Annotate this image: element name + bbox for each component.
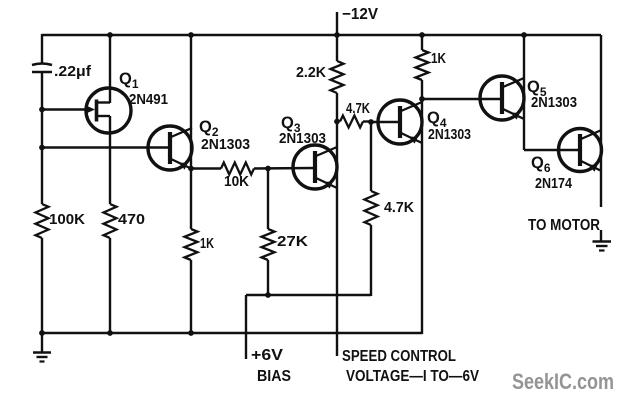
resistor 27K	[262, 229, 275, 260]
svg-text:470: 470	[118, 211, 145, 228]
resistor 100K	[36, 204, 49, 238]
svg-text:2N491: 2N491	[129, 91, 168, 108]
wire: Q5 base wire	[422, 98, 501, 100]
transistor Q2 2N1303	[148, 126, 192, 170]
transistor Q5 2N1303	[480, 76, 524, 120]
wire: left rail lower (100K to ground rail)	[41, 238, 43, 334]
wire: Q4 tangent column down to ground rail	[421, 99, 423, 334]
wire: -12V supply stub	[336, 12, 338, 35]
svg-text:2N1303: 2N1303	[428, 126, 471, 143]
wire: 1K to ground rail	[190, 260, 192, 334]
node: 4.7K / Q4 base / lower 4.7K junction	[368, 119, 374, 125]
wire: Q1 emitter to left rail	[42, 108, 88, 110]
resistor 1K (Q2 emitter-ground leg)	[185, 229, 198, 260]
svg-text:2N1303: 2N1303	[531, 94, 577, 111]
wire: left rail middle (cap to 100K)	[41, 72, 43, 204]
node: 1K / ground rail junction	[188, 330, 194, 336]
node: 10K / 27K / Q3 base junction	[265, 166, 271, 172]
wire: Q3 tangent column down to speed control terminal	[336, 93, 338, 356]
svg-text:−12V: −12V	[342, 6, 379, 23]
svg-text:VOLTAGE—I TO—6V: VOLTAGE—I TO—6V	[346, 368, 479, 385]
resistor 4.7K (horizontal, Q4 base)	[340, 116, 363, 128]
wire: top -12V rail	[42, 34, 601, 36]
wire: 27K top lead	[267, 169, 269, 230]
wire: 10K to Q3 base	[254, 167, 314, 170]
wire: Q1 top lead from rail into circle	[97, 35, 110, 103]
transistor Q4 2N1303	[378, 100, 422, 144]
node: 470 / ground rail junction	[107, 330, 113, 336]
ground (left)	[33, 333, 51, 362]
wire: bottom ground rail	[42, 332, 422, 334]
resistor 2.2K	[331, 61, 344, 93]
node: left rail / Q2 base junction	[39, 145, 45, 151]
svg-text:2N1303: 2N1303	[279, 130, 326, 147]
capacitor C1 .22uf	[32, 64, 52, 73]
wire: top rail to 1K (Q4 collector load)	[421, 35, 423, 50]
wire: 27K to bias wire	[267, 260, 269, 295]
transistor Q3 2N1303	[293, 145, 337, 189]
svg-text:2N174: 2N174	[535, 175, 573, 192]
wire: +6V bias wire	[246, 295, 371, 359]
svg-text:1K: 1K	[200, 235, 214, 252]
node: Q5 collector column / top rail junction	[521, 32, 527, 38]
resistor 4.7K (vertical)	[365, 191, 378, 225]
node: Q1 upper base / top rail junction	[107, 32, 113, 38]
svg-text:BIAS: BIAS	[257, 368, 291, 385]
svg-text:TO MOTOR: TO MOTOR	[528, 217, 600, 234]
wire: Q1 lower base lead out of circle down to 470	[97, 116, 110, 204]
node: left rail / ground rail junction	[39, 330, 45, 336]
node: left rail / Q1 emitter junction	[39, 107, 45, 113]
wire: Q2 collector/emitter column from top rail down to 1K	[190, 35, 192, 229]
Q1 emitter arrowhead	[86, 105, 96, 113]
node: 1K / Q4 collector / Q5 base junction	[419, 96, 425, 102]
node: -12V / top rail junction	[334, 32, 340, 38]
wire: top rail to 2.2K	[336, 35, 338, 61]
svg-text:27K: 27K	[277, 233, 308, 250]
wire: lower 4.7K to bias wire corner	[370, 225, 372, 296]
transistor Q6 2N174	[559, 129, 602, 172]
wire: Q4 base wire	[371, 121, 399, 123]
wire: Q4 base node down to lower 4.7K	[370, 122, 372, 191]
svg-text:SeekIC.com: SeekIC.com	[512, 369, 614, 394]
svg-text:SPEED CONTROL: SPEED CONTROL	[342, 348, 456, 365]
node: Q2 emitter / 10K junction	[188, 166, 194, 172]
transistor Q1 (UJT 2N491)	[86, 88, 131, 133]
node: 2.2K / 4.7K junction	[334, 119, 340, 125]
wire: 1K to Q4 collector node	[421, 80, 423, 99]
wire: Q2 base from left rail	[42, 146, 169, 148]
ground (motor)	[593, 230, 612, 251]
wire: Q2 emitter node to 10K	[191, 167, 221, 169]
svg-text:4.7K: 4.7K	[346, 100, 370, 117]
wire: 4.7K to Q4 base node	[363, 120, 371, 122]
svg-text:4.7K: 4.7K	[384, 199, 414, 216]
svg-text:10K: 10K	[224, 173, 249, 190]
resistor 10K	[221, 163, 254, 175]
node: Q2 collector column / top rail junction	[188, 32, 194, 38]
resistor 1K (Q4 collector)	[416, 50, 429, 80]
wire: left rail upper (to capacitor)	[41, 34, 43, 64]
node: 27K / bias wire junction	[265, 292, 271, 298]
svg-text:+6V: +6V	[251, 347, 283, 364]
wire: right rail (top rail to motor terminal)	[600, 35, 602, 207]
wire: 470 to ground rail	[109, 238, 111, 334]
wire: Q5 tangent column from rail to Q6 base	[524, 35, 579, 150]
node: 1K collector load / top rail junction	[419, 32, 425, 38]
resistor 470	[104, 204, 117, 238]
svg-text:100K: 100K	[49, 211, 85, 228]
svg-text:.22μf: .22μf	[54, 63, 92, 80]
svg-text:2N1303: 2N1303	[201, 136, 250, 153]
svg-text:2.2K: 2.2K	[296, 64, 326, 81]
svg-text:1K: 1K	[431, 50, 446, 67]
